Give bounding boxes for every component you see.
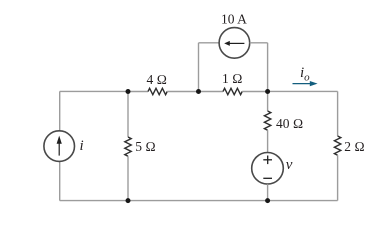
- svg-text:1 Ω: 1 Ω: [222, 71, 243, 86]
- wire: left vertical upper: [59, 91, 61, 131]
- svg-text:io: io: [300, 65, 310, 84]
- svg-text:i: i: [80, 138, 84, 154]
- wire: node C up to loop: [267, 43, 269, 92]
- current arrow i_o (teal): [293, 81, 318, 86]
- wire: loop top-right segment: [250, 42, 268, 44]
- svg-text:4 Ω: 4 Ω: [147, 72, 168, 87]
- current source 10 A (circle with left arrow): [219, 28, 250, 59]
- wire: left vertical lower: [59, 161, 61, 200]
- node C: [265, 89, 270, 94]
- svg-text:40 Ω: 40 Ω: [276, 116, 303, 131]
- wire: bottom rail: [60, 200, 338, 202]
- node A: [126, 89, 131, 94]
- wire: node C down to 40-ohm: [267, 92, 269, 112]
- wire: node A to 4-ohm: [128, 91, 148, 93]
- wire: top-left rail: [60, 90, 128, 92]
- wire: right vertical lower: [337, 155, 339, 200]
- node B: [196, 89, 201, 94]
- current source i (circle with up arrow): [44, 131, 75, 162]
- resistor 4 ohm (horizontal zigzag): [148, 88, 167, 94]
- wire: 1-ohm to node C: [242, 91, 267, 93]
- svg-text:10 A: 10 A: [221, 11, 247, 26]
- wire: 4-ohm to node B: [167, 91, 198, 93]
- wire: node C to top-right corner: [268, 90, 338, 92]
- wire: 40-ohm to v source: [267, 130, 269, 152]
- svg-text:v: v: [286, 157, 293, 173]
- wire: 5-ohm bottom to bottom node: [127, 156, 129, 200]
- wire: v source to bottom node: [267, 184, 269, 201]
- node bottom-mid: [265, 198, 270, 203]
- resistor 5 ohm (vertical zigzag): [125, 137, 131, 156]
- node bottom-left: [126, 198, 131, 203]
- wire: node A to 5-ohm top: [127, 92, 129, 138]
- wire: node B to 1-ohm: [199, 91, 224, 93]
- voltage source v (circle with plus minus): [252, 153, 284, 185]
- svg-text:5 Ω: 5 Ω: [135, 139, 156, 154]
- wire: loop top-left segment: [199, 42, 220, 44]
- resistor 40 ohm (vertical zigzag): [264, 111, 270, 130]
- wire: right vertical upper: [337, 91, 339, 136]
- wire: node B up to loop: [198, 43, 200, 92]
- resistor 2 ohm (vertical zigzag): [334, 136, 340, 155]
- resistor 1 ohm (horizontal zigzag): [223, 88, 242, 94]
- svg-text:2 Ω: 2 Ω: [344, 139, 365, 154]
